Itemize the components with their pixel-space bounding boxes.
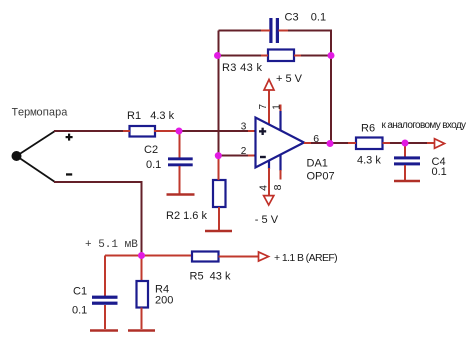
- svg-text:C3 0.1: C3 0.1: [285, 12, 327, 24]
- svg-text:R2 1.6 k: R2 1.6 k: [166, 210, 207, 222]
- svg-text:- 5 V: - 5 V: [255, 214, 279, 226]
- svg-text:к аналоговому входу: к аналоговому входу: [382, 120, 467, 131]
- svg-text:R6: R6: [361, 123, 375, 135]
- svg-text:0.1: 0.1: [72, 305, 87, 317]
- svg-text:R1 4.3 k: R1 4.3 k: [127, 110, 175, 122]
- svg-text:2: 2: [241, 146, 247, 157]
- svg-text:3: 3: [241, 122, 247, 133]
- svg-text:0.1: 0.1: [146, 159, 161, 171]
- svg-text:R5 43 k: R5 43 k: [190, 271, 231, 283]
- svg-text:DA1: DA1: [307, 158, 328, 170]
- svg-text:OP07: OP07: [307, 171, 335, 183]
- svg-text:C1: C1: [73, 286, 87, 298]
- svg-text:+ 1.1 В (AREF): + 1.1 В (AREF): [274, 252, 337, 264]
- svg-text:4.3 k: 4.3 k: [357, 155, 381, 167]
- svg-text:0.1: 0.1: [432, 166, 447, 178]
- svg-text:4: 4: [258, 185, 270, 191]
- svg-text:Термопара: Термопара: [12, 108, 69, 120]
- svg-text:200: 200: [155, 295, 173, 307]
- svg-text:7: 7: [258, 103, 269, 109]
- svg-text:+ 5 V: + 5 V: [276, 73, 303, 85]
- svg-text:+ 5.1 мВ: + 5.1 мВ: [85, 239, 138, 251]
- svg-text:R3 43 k: R3 43 k: [222, 62, 263, 74]
- svg-text:8: 8: [272, 184, 284, 190]
- svg-text:1: 1: [271, 104, 282, 110]
- svg-text:C2: C2: [144, 144, 158, 156]
